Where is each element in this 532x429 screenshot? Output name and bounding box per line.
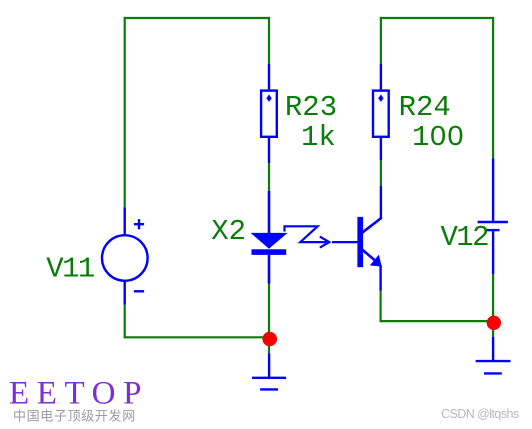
transistor emitter diagonal (362, 249, 375, 260)
svg-text:R24: R24 (399, 91, 451, 124)
V12 bottom lead (492, 231, 494, 274)
optocoupler light arrowhead (320, 237, 330, 248)
wire: bottom-left horizontal to node (124, 336, 269, 338)
transistor collector diagonal (361, 218, 382, 234)
wire: middle node to ground stub (268, 345, 270, 353)
voltage source V12 (battery) top lead (492, 158, 494, 221)
wire: right loop top horizontal (380, 17, 494, 19)
transistor emitter arrowhead (370, 255, 382, 267)
svg-text:V12: V12 (441, 221, 489, 254)
transistor base bar (357, 217, 363, 267)
optocoupler light arrow (zigzag) (285, 226, 327, 242)
ground middle: short bar (260, 388, 278, 390)
resistor R24 (380, 64, 382, 89)
ground right: short bar (484, 372, 502, 374)
V12 short plate (487, 229, 500, 231)
svg-text:V11: V11 (46, 253, 94, 286)
wire: left loop top horizontal (124, 17, 270, 19)
node junction dot middle (262, 332, 277, 347)
transistor Q (phototransistor of X2) base lead (332, 241, 359, 243)
svg-text:X2: X2 (211, 215, 246, 248)
svg-text:EETOP: EETOP (9, 376, 149, 412)
transistor collector lead (380, 186, 382, 219)
svg-text:中国电子顶级开发网: 中国电子顶级开发网 (13, 409, 136, 424)
ground middle: long bar (252, 377, 286, 379)
node junction dot right (487, 316, 501, 330)
V11 minus sign (134, 290, 144, 292)
wire: V12 node to ground stub green (492, 329, 494, 337)
optocoupler X2 LED cathode lead (268, 255, 271, 284)
voltage source V11 (123, 208, 125, 236)
resistor R23 (268, 64, 270, 89)
ground middle: lead (268, 353, 270, 378)
svg-text:CSDN @ltqshs: CSDN @ltqshs (441, 407, 519, 421)
wire: R24 branch mid segment (380, 160, 382, 186)
V11 plus sign (134, 223, 144, 225)
optocoupler X2 LED triangle (251, 233, 288, 249)
wire: middle vertical from top wire to R23 (268, 17, 270, 65)
wire: emitter branch lower green (380, 291, 382, 323)
wire: bottom-right horizontal to node (380, 320, 494, 322)
transistor emitter lead (379, 265, 381, 291)
V12 long plate (478, 221, 508, 223)
wire: left vertical lower (V11 bottom to bottom wire) (124, 305, 126, 339)
wire: middle vertical LED to node (268, 284, 270, 334)
wire: left vertical upper (V11 top to top wire) (124, 17, 126, 208)
ground right: lead (492, 337, 494, 361)
wire: middle vertical between R23 and LED (268, 163, 270, 191)
svg-text:100: 100 (412, 121, 464, 154)
svg-text:1k: 1k (301, 121, 336, 154)
svg-text:R23: R23 (285, 91, 337, 124)
wire: R24 branch from top wire (380, 17, 382, 65)
optocoupler X2 LED anode lead (268, 191, 271, 234)
ground right: long bar (476, 360, 511, 362)
wire: V12 branch upper green (492, 17, 494, 158)
wire: V12 branch lower green (492, 274, 494, 322)
optocoupler X2 LED cathode bar (252, 249, 287, 255)
